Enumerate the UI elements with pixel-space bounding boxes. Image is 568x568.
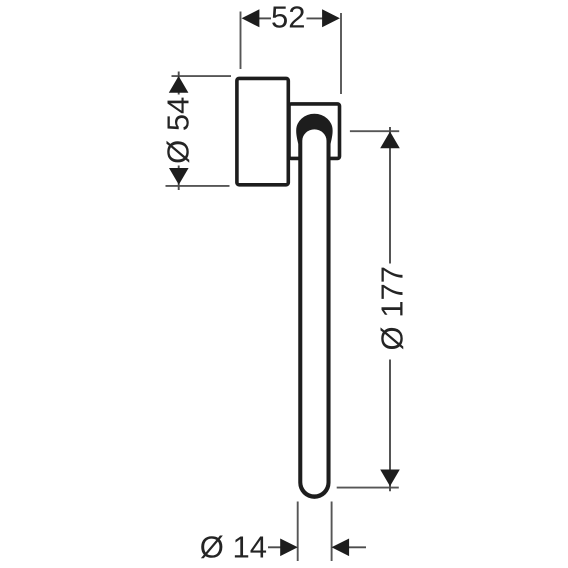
towel ring inner hole xyxy=(302,129,326,494)
dimension Ø54: up arrow xyxy=(169,76,189,93)
dimension Ø14: right extension line xyxy=(331,502,333,562)
dimension Ø177: bottom extension line xyxy=(337,487,399,489)
dimension Ø54: top extension line xyxy=(172,75,232,77)
dimension Ø54: dimension line xyxy=(178,72,180,95)
svg-text:Ø 177: Ø 177 xyxy=(374,266,409,350)
dimension Ø54: down arrow xyxy=(169,168,189,185)
rosette (wall disc, side view) xyxy=(237,78,288,184)
dimension Ø14: right tail line xyxy=(349,546,367,548)
dimension Ø14: right-pointing arrow xyxy=(280,539,298,557)
dimension Ø177: down arrow xyxy=(380,470,400,487)
dimension 52: line segments xyxy=(258,17,271,19)
dimension Ø177: up arrow xyxy=(380,132,400,149)
dimension Ø14: left tail line xyxy=(268,546,281,548)
dimension Ø177: top extension line xyxy=(350,130,399,132)
dimension Ø14: left extension line xyxy=(297,502,299,562)
svg-text:52: 52 xyxy=(271,0,305,35)
dimension Ø177: dimension line xyxy=(389,127,391,264)
svg-text:Ø 14: Ø 14 xyxy=(200,530,267,565)
dimension 52: right extension line xyxy=(340,13,342,94)
dimension Ø54: bottom extension line xyxy=(166,185,230,187)
dimension 52: left extension line xyxy=(240,12,242,70)
wall plate (square holder) xyxy=(289,104,340,158)
dimension 52: right arrow xyxy=(322,9,340,27)
dimension 52: left arrow xyxy=(242,9,260,27)
towel ring outer outline xyxy=(296,114,332,499)
dimension Ø14: left-pointing arrow xyxy=(332,539,350,557)
svg-text:Ø 54: Ø 54 xyxy=(161,97,196,164)
